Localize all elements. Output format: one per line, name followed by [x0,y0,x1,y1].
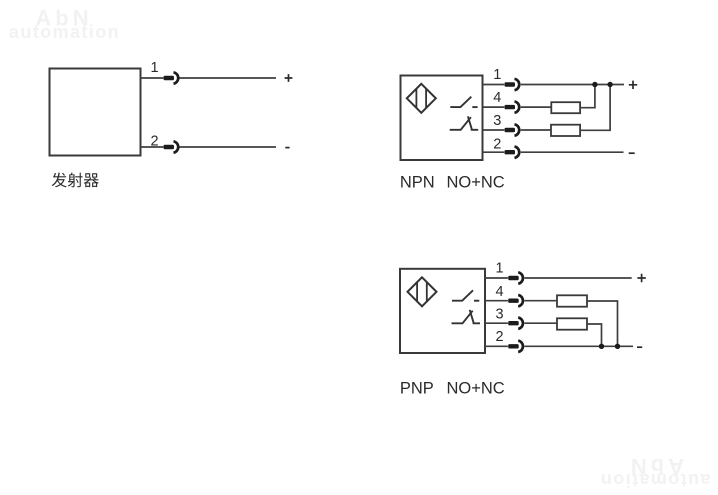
svg-text:2: 2 [493,136,501,152]
svg-text:3: 3 [495,306,503,322]
svg-text:3: 3 [493,113,501,129]
svg-text:2: 2 [150,134,158,150]
svg-text:2: 2 [495,329,503,345]
svg-text:1: 1 [493,67,501,83]
svg-text:4: 4 [493,90,501,106]
svg-text:automation: automation [600,470,711,490]
svg-text:NO+NC: NO+NC [447,173,505,191]
svg-text:NO+NC: NO+NC [447,380,505,398]
svg-text:1: 1 [495,261,503,277]
svg-text:PNP: PNP [400,380,434,398]
svg-text:4: 4 [495,284,503,300]
svg-text:NPN: NPN [400,173,435,191]
svg-text:1: 1 [150,60,158,76]
svg-text:automation: automation [9,22,120,42]
